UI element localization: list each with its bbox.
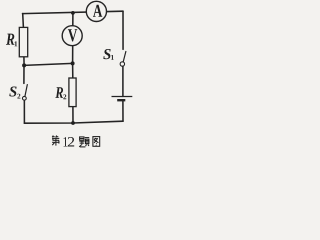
wire voltmeter bottom lead <box>72 46 74 64</box>
wire R2 top lead <box>72 63 74 78</box>
battery short plate <box>117 99 125 101</box>
caption number 2 <box>68 137 74 146</box>
voltmeter V circle <box>62 26 82 46</box>
label S1 letter S <box>103 49 110 59</box>
label S1 subscript 1 <box>111 55 114 60</box>
ammeter A circle <box>86 1 106 21</box>
label R2 letter R <box>55 87 63 98</box>
switch S2 contact circle <box>22 96 26 100</box>
switch S1 contact circle <box>120 62 124 66</box>
caption hanzi di4 <box>52 136 59 146</box>
caption number 1 <box>64 137 68 146</box>
wire R2 bottom lead <box>72 107 74 123</box>
battery long plate <box>112 96 133 98</box>
resistor R2 box <box>69 78 76 107</box>
wire middle horizontal <box>24 63 73 65</box>
switch S1 blade <box>123 52 126 62</box>
wire right vertical top to S1 <box>122 11 124 49</box>
label R1 letter R <box>6 34 14 45</box>
wire S1 to battery plus <box>122 66 124 96</box>
label R2 subscript 2 <box>63 94 66 99</box>
switch S2 blade <box>25 85 27 97</box>
voltmeter letter V <box>68 29 77 41</box>
caption hanzi ti2 <box>79 137 89 147</box>
wire node to S2 <box>23 65 25 83</box>
caption hanzi tu2 <box>93 137 100 147</box>
label S2 letter S <box>9 86 16 96</box>
label R1 subscript 1 <box>15 41 18 46</box>
wire bottom horizontal <box>24 121 123 123</box>
node dot middle (V/R2/middle wire) <box>71 61 75 65</box>
label S2 subscript 2 <box>17 94 20 99</box>
wire top horizontal <box>23 11 124 13</box>
node dot left (R1/S2/middle wire) <box>22 63 26 67</box>
node dot bottom (R2 on bottom wire) <box>71 121 75 125</box>
wire voltmeter top lead <box>72 13 74 26</box>
wire lead into R1 top <box>22 14 25 28</box>
wire S2 to bottom-left corner <box>23 100 25 123</box>
ammeter letter A <box>93 5 102 17</box>
wire battery minus to bottom-right corner <box>122 101 124 121</box>
resistor R1 box <box>19 27 27 56</box>
node dot top (V tap on top wire) <box>71 11 75 15</box>
wire lead R1 bottom to node <box>23 57 25 66</box>
